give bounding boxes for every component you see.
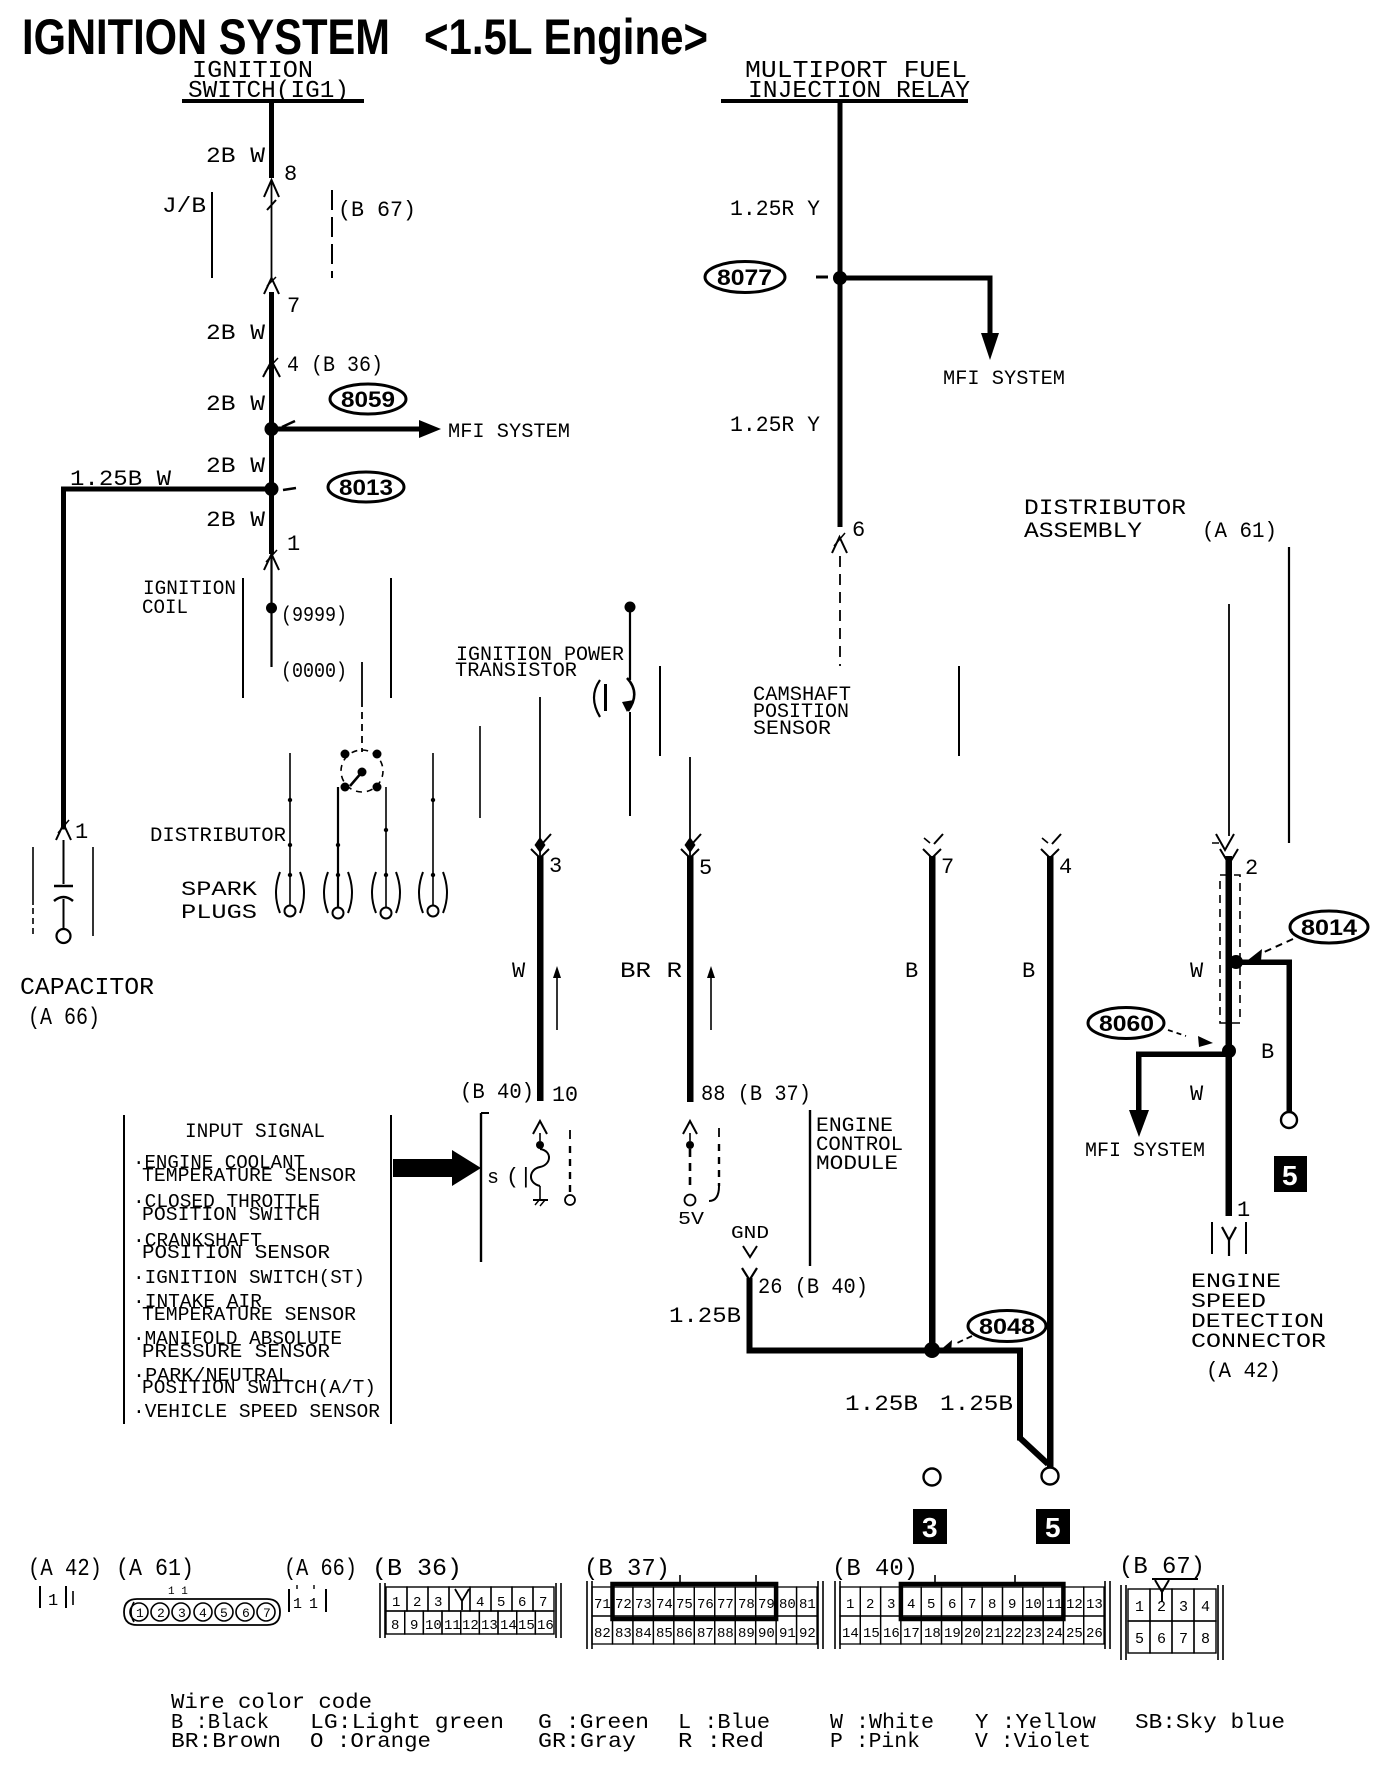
- distributor assembly label: [1024, 496, 1277, 544]
- wire: coil secondary to distributor: [361, 662, 363, 700]
- svg-text:8: 8: [391, 1618, 399, 1634]
- node: splice 8048: [924, 1342, 940, 1358]
- wire 3: thin lead: [539, 697, 541, 856]
- connector B-67 bracket (dashed): [331, 190, 333, 278]
- svg-text:4: 4: [907, 1597, 915, 1613]
- wire color code row 1: [171, 1712, 1285, 1735]
- distributor rotor: [341, 750, 384, 793]
- svg-text:R :Red: R :Red: [678, 1731, 764, 1754]
- svg-text:B: B: [905, 959, 918, 984]
- splice label 8059: [282, 384, 406, 427]
- svg-text:10: 10: [425, 1618, 442, 1634]
- svg-text:19: 19: [944, 1626, 961, 1642]
- wire 7: B to splice 8048: [929, 856, 936, 1352]
- svg-text:16: 16: [883, 1626, 900, 1642]
- svg-text:(|: (|: [506, 1165, 532, 1190]
- wire: 8048 right branch: [932, 1348, 1022, 1354]
- svg-text:10: 10: [1025, 1597, 1042, 1613]
- svg-text:86: 86: [676, 1626, 693, 1642]
- node on coil primary: [266, 603, 277, 614]
- svg-text:2: 2: [157, 1606, 165, 1621]
- svg-text:11: 11: [1046, 1597, 1063, 1613]
- svg-text:76: 76: [697, 1597, 714, 1613]
- wire: relay output 1.25R Y: [838, 103, 843, 527]
- svg-text:(9999): (9999): [281, 605, 347, 628]
- connector arrow on capacitor wire: [56, 824, 71, 840]
- svg-text:1: 1: [392, 1595, 400, 1611]
- wire: capacitor lead: [63, 840, 65, 884]
- wire: 8060 branch to MFI system: [1136, 1052, 1229, 1058]
- ignition power transistor label: [455, 644, 624, 683]
- svg-text:13: 13: [1086, 1597, 1103, 1613]
- svg-text:1: 1: [136, 1606, 144, 1621]
- svg-text:·IGNITION SWITCH(ST): ·IGNITION SWITCH(ST): [133, 1267, 365, 1289]
- svg-text:8013: 8013: [339, 475, 393, 500]
- relay bus bar: [721, 99, 968, 103]
- svg-text:75: 75: [676, 1597, 693, 1613]
- node: splice 8059: [265, 422, 279, 436]
- wire 5: thin lead: [689, 757, 691, 856]
- svg-text:1: 1: [309, 1596, 318, 1613]
- svg-text:MODULE: MODULE: [816, 1153, 898, 1176]
- page reference box 3: [913, 1509, 947, 1544]
- splice label 8013: [283, 472, 404, 502]
- svg-text:(A 66): (A 66): [28, 1005, 100, 1032]
- svg-text:(B 40): (B 40): [832, 1556, 918, 1583]
- svg-text:P :Pink: P :Pink: [830, 1731, 920, 1754]
- svg-text:SPARK: SPARK: [181, 879, 257, 902]
- svg-text:1: 1: [48, 1592, 58, 1611]
- svg-text:8: 8: [284, 162, 297, 187]
- svg-text:15: 15: [863, 1626, 880, 1642]
- wire color code row 2: [171, 1731, 1091, 1754]
- svg-text:(B 67): (B 67): [338, 198, 416, 223]
- connector B-37: [587, 1575, 823, 1649]
- splice label 8048: [938, 1311, 1046, 1354]
- svg-text:5: 5: [220, 1606, 228, 1621]
- svg-text:3: 3: [549, 854, 562, 879]
- svg-text:7: 7: [539, 1595, 547, 1611]
- svg-text:7: 7: [1179, 1631, 1188, 1648]
- svg-text:90: 90: [758, 1626, 775, 1642]
- spark plug 2: [324, 787, 352, 919]
- svg-text:88: 88: [717, 1626, 734, 1642]
- spark plug 3: [372, 787, 400, 919]
- svg-text:(A 61): (A 61): [1202, 519, 1277, 544]
- svg-text:TRANSISTOR: TRANSISTOR: [455, 660, 577, 683]
- svg-text:14: 14: [500, 1618, 517, 1634]
- svg-text:12: 12: [462, 1618, 479, 1634]
- input signal box bracket left: [123, 1115, 125, 1424]
- svg-text:21: 21: [985, 1626, 1002, 1642]
- svg-text:1: 1: [75, 820, 88, 845]
- ground terminal ring right: [1042, 1468, 1059, 1485]
- svg-text:<1.5L Engine>: <1.5L Engine>: [424, 9, 708, 65]
- svg-text:8: 8: [988, 1597, 996, 1613]
- svg-text:3: 3: [887, 1597, 895, 1613]
- signal direction arrow wire 5: [710, 975, 712, 1030]
- spark plug 1: [276, 753, 304, 917]
- ignition switch IG1 label: [188, 58, 349, 105]
- svg-text:7: 7: [287, 294, 300, 319]
- svg-text:85: 85: [656, 1626, 673, 1642]
- svg-text:6: 6: [1157, 1631, 1166, 1648]
- connector B-40: [835, 1575, 1110, 1649]
- svg-text:3: 3: [178, 1606, 186, 1621]
- svg-text:TEMPERATURE SENSOR: TEMPERATURE SENSOR: [142, 1304, 356, 1326]
- svg-text:20: 20: [964, 1626, 981, 1642]
- connector A-66: [289, 1585, 326, 1612]
- svg-text:INPUT SIGNAL: INPUT SIGNAL: [185, 1121, 325, 1144]
- svg-text:5V: 5V: [678, 1210, 704, 1230]
- svg-text:J/B: J/B: [162, 194, 206, 219]
- page reference box 5 (bottom): [1036, 1509, 1070, 1544]
- svg-text:DISTRIBUTOR: DISTRIBUTOR: [150, 825, 286, 848]
- svg-text:MFI SYSTEM: MFI SYSTEM: [943, 368, 1065, 391]
- svg-text:(B 67): (B 67): [1119, 1554, 1205, 1581]
- wire: 8014 branch B: [1236, 960, 1291, 966]
- svg-text:4: 4: [1201, 1599, 1210, 1616]
- capacitor bracket left: [32, 847, 34, 905]
- wire: 1.25B ground from pin 26: [747, 1278, 753, 1353]
- engine speed detection connector symbol: [1212, 1222, 1246, 1256]
- svg-text:18: 18: [924, 1626, 941, 1642]
- svg-text:3: 3: [1179, 1599, 1188, 1616]
- node: splice 8013: [265, 482, 279, 496]
- svg-text:(A 42): (A 42): [28, 1556, 102, 1583]
- wire: thin segment through J/B: [271, 182, 273, 280]
- svg-text:8: 8: [1201, 1631, 1210, 1648]
- svg-text:88 (B 37): 88 (B 37): [701, 1082, 811, 1107]
- svg-text:8014: 8014: [1301, 915, 1358, 940]
- svg-text:82: 82: [594, 1626, 611, 1642]
- svg-text:5: 5: [1135, 1631, 1144, 1648]
- splice label 8060: [1088, 1008, 1213, 1048]
- svg-text:2B W: 2B W: [206, 392, 266, 417]
- ECM pin 10 internal circuit: [487, 1121, 575, 1206]
- ignition coil bracket right: [390, 578, 392, 698]
- wire: switch pin 8 drop: [269, 103, 274, 178]
- connector arrow at coil pin: [264, 554, 279, 570]
- svg-text:CONNECTOR: CONNECTOR: [1191, 1331, 1326, 1354]
- svg-text:80: 80: [779, 1597, 796, 1613]
- svg-text:·VEHICLE SPEED SENSOR: ·VEHICLE SPEED SENSOR: [133, 1401, 380, 1423]
- svg-text:24: 24: [1046, 1626, 1063, 1642]
- J/B bracket line: [211, 192, 213, 278]
- ignition switch bus bar: [182, 99, 364, 103]
- svg-text:23: 23: [1025, 1626, 1042, 1642]
- svg-text:9: 9: [1008, 1597, 1016, 1613]
- svg-text:IGNITION SYSTEM: IGNITION SYSTEM: [22, 9, 390, 65]
- svg-text:O :Orange: O :Orange: [310, 1731, 431, 1754]
- connector arrow wire 3: [542, 834, 551, 844]
- svg-text:6: 6: [948, 1597, 956, 1613]
- svg-text:10: 10: [552, 1083, 578, 1108]
- svg-text:1: 1: [846, 1597, 854, 1613]
- svg-text:25: 25: [1066, 1626, 1083, 1642]
- svg-text:8048: 8048: [979, 1314, 1035, 1339]
- connector arrow at pin 7: [264, 278, 279, 294]
- node: splice 8060: [1222, 1044, 1236, 1058]
- svg-text:2B W: 2B W: [206, 508, 266, 533]
- svg-text:4: 4: [476, 1595, 484, 1611]
- svg-text:1.25B: 1.25B: [940, 1392, 1013, 1417]
- svg-text:1: 1: [1135, 1599, 1144, 1616]
- svg-text:5: 5: [927, 1597, 935, 1613]
- svg-text:72: 72: [615, 1597, 632, 1613]
- svg-text:9: 9: [410, 1618, 418, 1634]
- svg-text:2: 2: [413, 1595, 421, 1611]
- svg-text:GND: GND: [731, 1224, 769, 1244]
- svg-text:POSITION SWITCH(A/T): POSITION SWITCH(A/T): [142, 1377, 376, 1399]
- ECM pin 26 fork: [742, 1268, 757, 1280]
- svg-text:(B 37): (B 37): [584, 1556, 670, 1583]
- wire: coil primary feed: [270, 556, 272, 667]
- svg-text:6: 6: [518, 1595, 526, 1611]
- svg-text:1: 1: [293, 1596, 302, 1613]
- connector B-67: [1121, 1580, 1223, 1660]
- wire: branch to MFI system: [840, 276, 990, 281]
- transistor bracket: [479, 726, 481, 818]
- svg-text:B: B: [1022, 959, 1035, 984]
- svg-text:2: 2: [1157, 1599, 1166, 1616]
- svg-text:B: B: [1261, 1040, 1274, 1065]
- svg-text:78: 78: [738, 1597, 755, 1613]
- ECM pin 88 internal circuit: [678, 1121, 719, 1230]
- svg-text:89: 89: [738, 1626, 755, 1642]
- ECM bracket left: [480, 1113, 482, 1262]
- svg-text:92: 92: [799, 1626, 816, 1642]
- svg-text:7: 7: [263, 1606, 271, 1621]
- wire 5: BR R to ECM pin 88: [687, 856, 694, 1102]
- transistor emitter wire: [629, 712, 631, 816]
- page reference box 5: [1274, 1156, 1307, 1192]
- svg-text:3: 3: [434, 1595, 442, 1611]
- svg-text:V :Violet: V :Violet: [975, 1731, 1091, 1754]
- ground terminal ring left: [924, 1469, 941, 1486]
- svg-text:2B W: 2B W: [206, 454, 266, 479]
- wire 4: B drop: [1047, 856, 1054, 1468]
- engine speed detection connector label: [1191, 1271, 1326, 1384]
- svg-text:W: W: [1190, 959, 1204, 984]
- svg-text:8077: 8077: [717, 265, 772, 290]
- svg-text:ASSEMBLY: ASSEMBLY: [1024, 519, 1142, 544]
- svg-text:84: 84: [635, 1626, 652, 1642]
- svg-text:CAPACITOR: CAPACITOR: [20, 975, 154, 1002]
- svg-text:1 1: 1 1: [168, 1586, 188, 1598]
- svg-text:7: 7: [941, 855, 954, 880]
- svg-text:2: 2: [1245, 856, 1258, 881]
- connector arrow wire 7: [934, 834, 943, 844]
- engine control module label: [816, 1115, 903, 1176]
- transistor Q symbol: [594, 678, 634, 717]
- svg-text:1.25R Y: 1.25R Y: [730, 413, 820, 438]
- svg-text:DISTRIBUTOR: DISTRIBUTOR: [1024, 496, 1186, 521]
- connector arrow at pin 8: [264, 180, 279, 197]
- ignition coil bracket left: [242, 578, 244, 698]
- svg-text:13: 13: [481, 1618, 498, 1634]
- svg-text:8059: 8059: [341, 387, 395, 412]
- connector double arrow wire 2: [1216, 834, 1234, 850]
- multiport fuel injection relay label: [745, 58, 970, 105]
- svg-text:1: 1: [287, 532, 300, 557]
- svg-text:5: 5: [497, 1595, 505, 1611]
- svg-text:5: 5: [1045, 1512, 1061, 1543]
- svg-text:MFI SYSTEM: MFI SYSTEM: [1085, 1140, 1205, 1163]
- svg-text:5: 5: [699, 856, 712, 881]
- wire: branch to MFI system: [271, 427, 419, 432]
- capacitor terminal ring: [57, 929, 71, 943]
- svg-text:(A 66): (A 66): [284, 1556, 357, 1583]
- svg-text:11: 11: [444, 1618, 461, 1634]
- splice label 8077: [705, 262, 828, 293]
- svg-text:COIL: COIL: [142, 597, 188, 620]
- svg-text:74: 74: [656, 1597, 673, 1613]
- svg-text:W: W: [1190, 1082, 1204, 1107]
- svg-text:BR:Brown: BR:Brown: [171, 1731, 281, 1754]
- transistor Q collector wire: [625, 602, 636, 613]
- svg-text:PRESSURE SENSOR: PRESSURE SENSOR: [142, 1341, 330, 1363]
- wire 3: W to ECM pin 10: [537, 856, 544, 1101]
- wire: dashed drop to camshaft sensor: [839, 556, 841, 666]
- svg-text:16: 16: [537, 1618, 554, 1634]
- svg-text:87: 87: [697, 1626, 714, 1642]
- svg-text:W: W: [512, 959, 526, 984]
- camshaft position sensor bracket right: [958, 666, 960, 756]
- wire: 1.25B W branch to capacitor: [61, 487, 271, 492]
- svg-text:81: 81: [799, 1597, 816, 1613]
- connector A-42: [40, 1586, 73, 1608]
- svg-text:PLUGS: PLUGS: [181, 902, 257, 925]
- svg-text:4: 4: [1059, 855, 1072, 880]
- svg-text:(B 36): (B 36): [372, 1556, 462, 1583]
- svg-text:4 (B 36): 4 (B 36): [287, 353, 383, 378]
- spark plug 4: [419, 753, 447, 917]
- svg-text:(0000): (0000): [281, 661, 347, 684]
- svg-text:12: 12: [1066, 1597, 1083, 1613]
- svg-text:1.25R Y: 1.25R Y: [730, 197, 820, 222]
- svg-text:3: 3: [922, 1512, 938, 1543]
- camshaft position sensor bracket left: [659, 666, 661, 756]
- camshaft position sensor label: [753, 684, 851, 741]
- svg-text:(A 61): (A 61): [116, 1556, 194, 1583]
- svg-text:MFI SYSTEM: MFI SYSTEM: [448, 421, 570, 444]
- svg-text:77: 77: [717, 1597, 734, 1613]
- connector arrow wire 5: [692, 834, 701, 844]
- distributor assembly bracket: [1288, 547, 1290, 843]
- signal direction arrow wire 3: [556, 975, 558, 1030]
- capacitor bracket right: [92, 847, 94, 936]
- svg-text:1.25B: 1.25B: [669, 1304, 741, 1329]
- svg-text:2B W: 2B W: [206, 321, 266, 346]
- capacitor C plates: [54, 885, 73, 888]
- svg-text:s: s: [487, 1167, 499, 1190]
- svg-text:17: 17: [903, 1626, 920, 1642]
- svg-text:BR R: BR R: [620, 959, 682, 984]
- svg-text:15: 15: [518, 1618, 535, 1634]
- svg-text:(A 42): (A 42): [1206, 1359, 1281, 1384]
- svg-text:POSITION SENSOR: POSITION SENSOR: [142, 1242, 330, 1264]
- svg-text:6: 6: [242, 1606, 250, 1621]
- svg-text:91: 91: [779, 1626, 796, 1642]
- node: splice 8014: [1229, 955, 1243, 969]
- svg-text:8060: 8060: [1099, 1011, 1154, 1036]
- svg-text:14: 14: [842, 1626, 859, 1642]
- svg-text:73: 73: [635, 1597, 652, 1613]
- wire 2: thin lead from distributor assembly: [1228, 604, 1230, 836]
- svg-text:7: 7: [968, 1597, 976, 1613]
- svg-text:1: 1: [1237, 1198, 1250, 1223]
- connector arrow wire 4: [1052, 834, 1061, 844]
- svg-text:4: 4: [199, 1606, 207, 1621]
- svg-text:(B 40): (B 40): [460, 1080, 534, 1105]
- svg-text:5: 5: [1282, 1160, 1298, 1191]
- svg-text:SB:Sky blue: SB:Sky blue: [1135, 1712, 1285, 1735]
- svg-text:6: 6: [852, 518, 865, 543]
- svg-text:22: 22: [1005, 1626, 1022, 1642]
- svg-text:2B W: 2B W: [206, 144, 266, 169]
- connector A-61: [124, 1599, 280, 1625]
- svg-text:83: 83: [615, 1626, 632, 1642]
- shield dashed box on wire 2: [1220, 875, 1240, 1023]
- node: splice 8077: [833, 271, 847, 285]
- svg-text:GR:Gray: GR:Gray: [538, 1731, 636, 1754]
- input signal box bracket right: [390, 1115, 392, 1424]
- svg-text:2: 2: [866, 1597, 874, 1613]
- svg-text:1.25B: 1.25B: [845, 1392, 918, 1417]
- input signal arrow to ECM: [393, 1150, 481, 1186]
- splice label 8014: [1248, 911, 1368, 961]
- svg-text:POSITION SWITCH: POSITION SWITCH: [142, 1204, 320, 1226]
- wire 2: W trunk: [1226, 856, 1233, 1216]
- connector B-36: [380, 1583, 561, 1638]
- svg-text:26 (B 40): 26 (B 40): [758, 1275, 868, 1300]
- ECM bracket right: [809, 1110, 811, 1266]
- svg-text:79: 79: [758, 1597, 775, 1613]
- input signal list: [133, 1152, 380, 1423]
- svg-text:TEMPERATURE SENSOR: TEMPERATURE SENSOR: [142, 1165, 356, 1187]
- svg-text:71: 71: [594, 1597, 611, 1613]
- ECM ground pin arrow: [743, 1246, 757, 1257]
- svg-text:26: 26: [1086, 1626, 1103, 1642]
- svg-text:SENSOR: SENSOR: [753, 718, 831, 741]
- wire: main 2B W feed: [269, 292, 274, 554]
- terminal ring 8014 branch: [1281, 1112, 1297, 1128]
- connector arrow at pin 6: [832, 537, 847, 553]
